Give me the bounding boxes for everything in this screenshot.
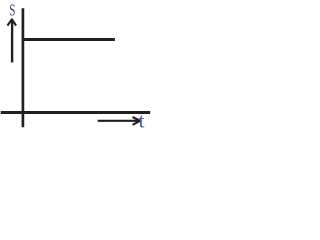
t-axis arrow (horizontal, open head) [98,117,141,125]
vertical axis (S axis line) [22,8,25,127]
vertical arrow head [7,19,16,25]
horizontal arrow head [133,117,141,125]
horizontal axis (t axis line) [1,111,151,114]
wire: vertical arrow shaft [11,21,13,63]
svg-text:t: t [139,108,145,132]
svg-text:S: S [9,1,15,20]
wire: horizontal arrow shaft [98,120,139,122]
step line (signal level) [22,38,115,41]
S-axis arrow (vertical, open head) [7,19,16,62]
